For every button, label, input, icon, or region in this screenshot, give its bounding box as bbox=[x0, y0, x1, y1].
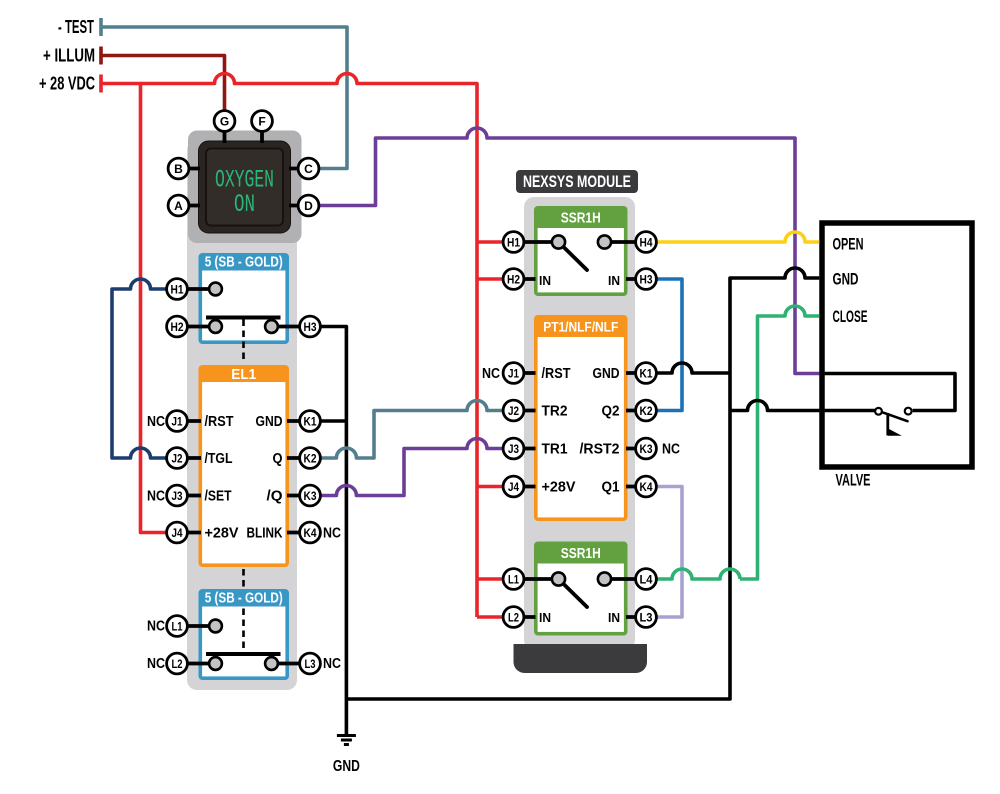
wire - TEST (teal) to lamp pin C bbox=[102, 27, 347, 169]
svg-text:L2: L2 bbox=[508, 611, 519, 625]
svg-text:J3: J3 bbox=[172, 489, 183, 503]
pin L4 NEXSYS bbox=[636, 569, 657, 590]
svg-text:/RST2: /RST2 bbox=[580, 442, 620, 458]
valve switch contact circles bbox=[875, 408, 882, 415]
relay U4 lever bbox=[559, 579, 588, 607]
switch S2 box 5 (SB - GOLD) bottom bbox=[199, 589, 290, 680]
pin J1 EL1 bbox=[167, 411, 188, 432]
svg-text:+ 28 VDC: + 28 VDC bbox=[39, 74, 95, 94]
svg-text:SSR1H: SSR1H bbox=[561, 545, 601, 562]
pin L1 NEXSYS bbox=[503, 569, 524, 590]
pin K2 PT1 bbox=[636, 400, 657, 421]
svg-text:VALVE: VALVE bbox=[836, 471, 871, 490]
lamp pin D bbox=[298, 195, 319, 216]
svg-text:J1: J1 bbox=[508, 367, 519, 381]
pin L3 NEXSYS bbox=[636, 607, 657, 628]
svg-text:- TEST: - TEST bbox=[58, 17, 94, 37]
wire black EL1 K1 stub to vertical bbox=[320, 419, 346, 423]
svg-text:H1: H1 bbox=[171, 283, 184, 297]
svg-text:K1: K1 bbox=[640, 367, 653, 381]
pin H3 left bbox=[300, 316, 321, 337]
pin K2 EL1 bbox=[300, 448, 321, 469]
wire green vertical to valve CLOSE bbox=[740, 306, 819, 579]
dashed mechanical link EL1-S2 bbox=[242, 569, 245, 652]
pin J3 PT1 bbox=[503, 438, 524, 459]
relay U4 SSR1H bottom box bbox=[534, 542, 628, 636]
svg-text:Q2: Q2 bbox=[602, 404, 620, 420]
svg-text:NC: NC bbox=[147, 489, 165, 505]
relay U2 SSR1H top box bbox=[534, 206, 628, 296]
indicator lamp screen bbox=[206, 149, 283, 226]
svg-text:/SET: /SET bbox=[205, 489, 232, 505]
valve internal switch lever bbox=[880, 411, 908, 421]
wire + ILLUM (dark red) to lamp pin G bbox=[102, 56, 225, 111]
lamp pin B bbox=[168, 158, 189, 179]
svg-text:SSR1H: SSR1H bbox=[561, 210, 601, 227]
wire black bottom run, up right side to valve GND bbox=[346, 268, 819, 699]
pin J4 PT1 bbox=[503, 476, 524, 497]
svg-text:H3: H3 bbox=[640, 273, 653, 287]
terminal tick 28VDC bbox=[99, 75, 103, 93]
wire purple lamp pin D to PT1 net, down to valve bbox=[319, 128, 819, 374]
wire purple EL1 K3 (/Q) to PT1 J3 with hops bbox=[320, 439, 503, 496]
svg-text:NC: NC bbox=[662, 442, 680, 458]
PT1 pin stubs bbox=[524, 373, 636, 487]
lamp pin stubs bbox=[189, 131, 299, 205]
wire black PT1 K1 to right vertical with hop over blue bbox=[656, 363, 730, 373]
pin L1 left bbox=[167, 616, 188, 637]
svg-text:B: B bbox=[174, 162, 183, 176]
svg-text:C: C bbox=[304, 162, 313, 176]
svg-text:L2: L2 bbox=[172, 657, 183, 671]
pin J3 EL1 bbox=[167, 485, 188, 506]
pin L2 left bbox=[167, 653, 188, 674]
svg-text:F: F bbox=[258, 115, 265, 129]
svg-text:K3: K3 bbox=[304, 489, 317, 503]
lamp pin C bbox=[298, 158, 319, 179]
svg-text:GND: GND bbox=[333, 758, 360, 775]
pin H3 NEXSYS bbox=[636, 269, 657, 290]
NEXSYS MODULE title plate bbox=[516, 170, 638, 193]
pin K1 EL1 bbox=[300, 411, 321, 432]
svg-text:G: G bbox=[220, 115, 229, 129]
lamp pin A bbox=[168, 195, 189, 216]
valve switch actuator pole bbox=[886, 413, 889, 435]
wire red stub to NEXSYS H1 bbox=[477, 240, 503, 244]
pin K3 EL1 bbox=[300, 485, 321, 506]
wire red stub to NEXSYS H2 bbox=[477, 277, 503, 281]
svg-text:H3: H3 bbox=[304, 320, 317, 334]
svg-text:L1: L1 bbox=[508, 573, 519, 587]
svg-text:L1: L1 bbox=[172, 620, 183, 634]
pin L2 NEXSYS bbox=[503, 607, 524, 628]
wire yellow NEXSYS H4 to valve OPEN with hop over purple bbox=[656, 232, 819, 242]
switch S1 box 5 (SB - GOLD) top bbox=[199, 253, 290, 344]
pin H2 NEXSYS bbox=[503, 269, 524, 290]
svg-text:BLINK: BLINK bbox=[247, 526, 283, 542]
svg-text:L3: L3 bbox=[305, 657, 316, 671]
svg-text:5 (SB - GOLD): 5 (SB - GOLD) bbox=[205, 255, 283, 271]
svg-text:J1: J1 bbox=[172, 415, 183, 429]
svg-text:K1: K1 bbox=[304, 415, 317, 429]
svg-text:PT1/NLF/NLF: PT1/NLF/NLF bbox=[543, 319, 618, 335]
wire navy H1 to J2 with hops over red bbox=[112, 279, 167, 458]
EL1 pin stubs bbox=[167, 421, 300, 533]
svg-text:OPEN: OPEN bbox=[833, 235, 864, 254]
svg-text:TR1: TR1 bbox=[542, 442, 568, 458]
svg-text:K2: K2 bbox=[640, 404, 653, 418]
pin J1 PT1 bbox=[503, 363, 524, 384]
wire red branch to EL1 J4 bbox=[141, 84, 167, 533]
terminal tick TEST bbox=[99, 18, 103, 36]
switch S2 bar bbox=[206, 652, 281, 656]
svg-text:ON: ON bbox=[234, 190, 255, 219]
dashed mechanical link S1-EL1 bbox=[242, 320, 245, 364]
pin H4 NEXSYS bbox=[636, 232, 657, 253]
svg-text:IN: IN bbox=[608, 273, 620, 288]
svg-text:H2: H2 bbox=[507, 273, 520, 287]
pin K1 PT1 bbox=[636, 363, 657, 384]
S2 contact circles bbox=[209, 620, 222, 633]
svg-text:GND: GND bbox=[593, 366, 620, 382]
wire lavender NEXSYS K4 to L3 bbox=[656, 487, 682, 618]
svg-text:J2: J2 bbox=[172, 452, 183, 466]
pin H1 NEXSYS bbox=[503, 232, 524, 253]
svg-text:NC: NC bbox=[147, 656, 165, 672]
NEXSYS module footer bbox=[514, 644, 648, 673]
svg-text:CLOSE: CLOSE bbox=[833, 307, 868, 326]
wire blue NEXSYS H3 to K2 bbox=[656, 279, 682, 411]
switch S1 bar bbox=[206, 316, 281, 320]
svg-text:J4: J4 bbox=[508, 480, 519, 494]
svg-text:L3: L3 bbox=[640, 611, 653, 625]
indicator lamp housing (gray) bbox=[188, 131, 302, 244]
wire black H3 vertical down to ground bbox=[320, 327, 346, 736]
pin K4 EL1 bbox=[300, 522, 321, 543]
valve switch actuator wedge bbox=[888, 428, 902, 435]
pin K4 PT1 bbox=[636, 476, 657, 497]
svg-text:K2: K2 bbox=[304, 452, 317, 466]
svg-text:J2: J2 bbox=[508, 404, 519, 418]
svg-text:/RST: /RST bbox=[542, 366, 571, 382]
wire black valve switch row with hop over green bbox=[730, 401, 876, 411]
wire red stub to NEXSYS L2 bbox=[477, 615, 503, 619]
wire red stub to NEXSYS J4 bbox=[477, 485, 503, 489]
indicator lamp bezel bbox=[199, 141, 291, 233]
wire + 28 VDC (red) main run with hops, to NEXSYS feed rail bbox=[102, 74, 477, 618]
left module gray strip bbox=[187, 140, 297, 690]
pin H1 left bbox=[167, 279, 188, 300]
svg-text:GND: GND bbox=[833, 270, 859, 289]
pin J4 EL1 bbox=[167, 522, 188, 543]
S2 pin stubs bbox=[187, 626, 300, 664]
valve box bbox=[822, 223, 972, 467]
svg-text:+28V: +28V bbox=[542, 480, 576, 496]
svg-text:/Q: /Q bbox=[267, 489, 283, 505]
svg-text:NEXSYS MODULE: NEXSYS MODULE bbox=[523, 173, 631, 191]
pin J2 PT1 bbox=[503, 400, 524, 421]
svg-text:IN: IN bbox=[539, 273, 551, 288]
svg-text:NC: NC bbox=[323, 526, 341, 542]
svg-text:A: A bbox=[174, 199, 183, 213]
svg-text:H4: H4 bbox=[640, 236, 653, 250]
timer U3 PT1/NLF/NLF box bbox=[534, 315, 628, 521]
relay U2 lever bbox=[559, 242, 588, 270]
svg-text:GND: GND bbox=[256, 414, 283, 430]
svg-text:K4: K4 bbox=[640, 480, 653, 494]
svg-text:/RST: /RST bbox=[205, 414, 234, 430]
svg-text:L4: L4 bbox=[640, 573, 653, 587]
NEXSYS module gray strip bbox=[524, 197, 635, 650]
svg-text:Q: Q bbox=[273, 451, 283, 467]
lamp pin G bbox=[214, 111, 235, 132]
wire green NEXSYS L4 out with hops over lavender and black bbox=[656, 569, 740, 579]
wire red stub to NEXSYS L1 bbox=[477, 577, 503, 581]
pin L3 left bbox=[300, 653, 321, 674]
svg-text:/TGL: /TGL bbox=[205, 451, 233, 467]
svg-text:NC: NC bbox=[323, 656, 341, 672]
svg-text:H1: H1 bbox=[507, 236, 520, 250]
svg-text:+28V: +28V bbox=[205, 526, 239, 542]
svg-text:NC: NC bbox=[147, 619, 165, 635]
svg-text:IN: IN bbox=[539, 610, 551, 625]
svg-text:K3: K3 bbox=[640, 442, 653, 456]
lamp pin F bbox=[252, 111, 273, 132]
pin H2 left bbox=[167, 316, 188, 337]
NEXSYS relay top stubs bbox=[524, 242, 636, 279]
svg-text:J3: J3 bbox=[508, 442, 519, 456]
S1 pin stubs bbox=[187, 289, 300, 327]
NEXSYS relay bottom stubs bbox=[524, 579, 636, 617]
wire teal EL1 K2 (Q) to PT1 J2 with hops bbox=[320, 401, 503, 459]
S1 contact circles bbox=[209, 283, 222, 296]
ground symbol bbox=[337, 736, 356, 745]
svg-text:TR2: TR2 bbox=[542, 404, 568, 420]
svg-text:NC: NC bbox=[482, 366, 500, 382]
svg-text:5 (SB - GOLD): 5 (SB - GOLD) bbox=[205, 591, 283, 607]
pin J2 EL1 bbox=[167, 448, 188, 469]
pin K3 PT1 bbox=[636, 438, 657, 459]
terminal tick ILLUM bbox=[99, 47, 103, 65]
relay EL1 box bbox=[199, 365, 290, 567]
svg-text:K4: K4 bbox=[304, 526, 317, 540]
svg-text:J4: J4 bbox=[172, 526, 183, 540]
wire black valve internal loop bbox=[819, 374, 955, 411]
svg-text:NC: NC bbox=[147, 414, 165, 430]
svg-text:EL1: EL1 bbox=[231, 366, 256, 383]
svg-text:H2: H2 bbox=[171, 320, 184, 334]
svg-text:IN: IN bbox=[608, 610, 620, 625]
svg-text:D: D bbox=[304, 199, 313, 213]
svg-text:Q1: Q1 bbox=[602, 480, 620, 496]
svg-text:+ ILLUM: + ILLUM bbox=[43, 46, 95, 66]
